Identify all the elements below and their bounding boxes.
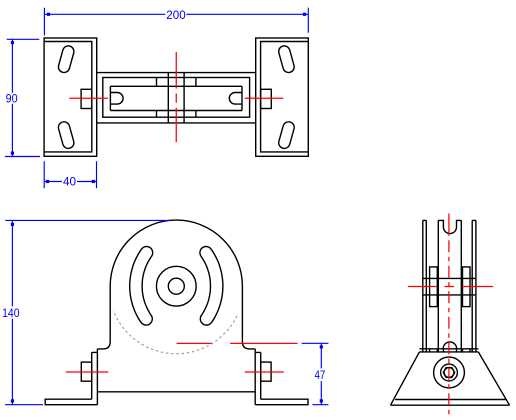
side view: pulley groove root bottom arc — [443, 342, 456, 349]
side view: hex bolt head — [443, 368, 454, 378]
top view: left groove C-profile — [110, 86, 123, 110]
dim 200: dimension line — [44, 13, 308, 15]
side view: nut edges to base — [430, 349, 470, 352]
front view: right bolt head — [261, 362, 271, 381]
front view: housing circular body with side fillets — [97, 220, 255, 349]
side view: trapezoid base — [391, 352, 510, 405]
front view: right side plate edge-on — [255, 349, 261, 405]
top view: left bolt centerline — [69, 97, 108, 99]
top view: vertical centerline — [175, 52, 177, 142]
svg-text:90: 90 — [6, 92, 18, 106]
svg-text:200: 200 — [166, 8, 186, 22]
front view: hidden pulley dashed circle — [113, 310, 237, 353]
side view: right plate edges — [472, 220, 476, 352]
side view: axle bolt shaft lines — [423, 278, 476, 295]
side view: base top edges — [419, 349, 478, 352]
top view: right plate upper slotted hole — [277, 45, 295, 74]
side view: groove notch walls to base — [443, 349, 456, 352]
dim 90: end dots — [11, 41, 14, 44]
side view: pulley with top groove notch — [438, 220, 461, 352]
side view: vertical centerline — [448, 214, 450, 236]
top view: left plate lower slotted hole — [57, 120, 75, 149]
front view: base lower edge between plates — [97, 391, 255, 393]
side view: left spacer nut — [430, 267, 438, 307]
top view: pulley slot opening edges — [110, 86, 242, 110]
front view: left bolt head — [81, 362, 91, 381]
side view: left plate edges — [423, 220, 427, 352]
dim 40: dimension line — [44, 181, 96, 183]
front view: pulley hub outer circle — [156, 266, 196, 306]
dim 40: end dots — [46, 180, 49, 183]
side view: bolt circle inside hex — [444, 368, 454, 378]
top view: right bolt head — [261, 89, 272, 108]
dim 200: extension lines — [44, 8, 308, 36]
top view: pulley hub block — [168, 73, 184, 123]
front view: axle bore circle — [168, 278, 184, 294]
dim 90: extension lines — [5, 39, 40, 156]
top view: left plate inner thickness lines — [44, 42, 92, 152]
front view: right curved lightening slot — [200, 247, 223, 326]
svg-text:40: 40 — [63, 175, 76, 189]
top view: left plate upper slotted hole — [57, 45, 75, 74]
dim 140: extension lines — [5, 220, 170, 404]
side view: right spacer nut — [463, 267, 471, 307]
top view: right bolt centerline — [245, 97, 284, 99]
top view: housing body outer edges — [97, 73, 256, 123]
top view: left mounting plate outline — [44, 38, 97, 156]
dim 47: extension lines — [302, 343, 329, 404]
front view: left bolt centerline — [66, 371, 109, 373]
dim 90: dimension line — [11, 39, 13, 156]
top view: left bolt head — [81, 89, 92, 108]
dim 140: end dots — [11, 223, 14, 226]
front view: right foot flange — [255, 399, 308, 405]
dim 40: extension lines — [44, 161, 96, 188]
top view: axle nut edges — [157, 78, 196, 118]
front view: left foot flange — [45, 399, 97, 405]
dim 140: dimension line — [11, 220, 13, 404]
dim 200: end dots — [47, 13, 50, 16]
dim 47: end dots — [320, 345, 323, 348]
side view: boss counterbore circle — [441, 364, 458, 381]
side view: axle horizontal centerline — [408, 286, 493, 288]
top view: right mounting plate outline — [256, 38, 309, 156]
top view: housing body inner rectangle — [103, 78, 250, 118]
svg-text:140: 140 — [2, 306, 20, 320]
front view: left curved lightening slot — [130, 247, 153, 326]
top view: right plate lower slotted hole — [277, 120, 295, 149]
front view: right bolt centerline — [245, 371, 284, 373]
top view: right groove C-profile — [229, 86, 242, 110]
top view: right plate inner thickness lines — [261, 42, 309, 152]
svg-text:47: 47 — [315, 368, 326, 382]
front view: left side plate edge-on — [92, 349, 98, 405]
front view: pulley bottom level centerline — [177, 342, 298, 344]
dim 47: dimension line — [320, 343, 322, 404]
side view: boss outer circle — [434, 357, 465, 388]
